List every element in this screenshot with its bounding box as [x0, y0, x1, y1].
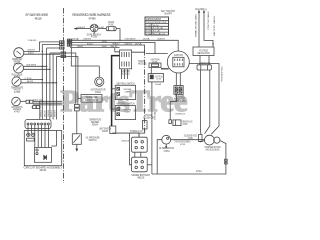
svg-text:GRN: GRN: [48, 109, 50, 117]
ignition connector block: [174, 86, 183, 95]
svg-text:HYDRAULIC LIFT: HYDRAULIC LIFT: [130, 130, 143, 133]
stubs heavy line to relays: [111, 88, 115, 110]
svg-text:B+I+A1+S: B+I+A1+S: [153, 33, 166, 36]
svg-text:10 AMP: 10 AMP: [99, 26, 104, 29]
voltage regulator box: [193, 47, 214, 56]
rotated wire labels: [40, 11, 223, 120]
wire G4 lead C: [33, 104, 62, 106]
svg-text:START: START: [125, 91, 132, 94]
svg-text:SWITCH 48163: SWITCH 48163: [85, 99, 98, 102]
svg-text:16GA: 16GA: [102, 40, 107, 43]
svg-text:2 RUN: 2 RUN: [146, 28, 152, 30]
svg-text:47455: 47455: [14, 76, 21, 79]
wire row y44.5: [42, 44, 60, 46]
battery sense wire A: [198, 10, 200, 47]
accessory plug box: [148, 74, 163, 82]
connector block J1: [25, 120, 51, 129]
temperature gauge G3: [12, 77, 21, 86]
section divider left: [63, 8, 65, 183]
wire stub from divider to ignition: [146, 53, 155, 55]
svg-text:BROWN: BROWN: [27, 81, 33, 83]
svg-text:48165: 48165: [102, 130, 109, 133]
magneto left lead: [157, 140, 162, 174]
svg-text:47490: 47490: [89, 16, 96, 20]
magneto ground stub: [165, 144, 167, 149]
interlock module small box: [110, 126, 116, 134]
ignition switch chart table: [145, 17, 169, 35]
section divider right: [144, 50, 146, 132]
svg-text:POSITIVE BATTERY CABLE: POSITIVE BATTERY CABLE: [220, 66, 223, 81]
svg-text:16GA: 16GA: [153, 111, 156, 120]
wire row y107: [32, 106, 33, 108]
wire row y53: [50, 52, 60, 54]
starter solenoid: [214, 137, 220, 143]
wire G3 upper lead: [21, 79, 42, 81]
svg-text:BLACK: BLACK: [87, 42, 93, 45]
svg-text:48190: 48190: [137, 176, 145, 179]
wire accessory feed: [71, 48, 99, 66]
svg-text:REGULATOR: REGULATOR: [198, 52, 210, 55]
harness bundle vertical 3: [49, 53, 51, 120]
inline connector on temperature wires: [74, 104, 79, 133]
svg-text:START: START: [125, 111, 132, 114]
heavy wire lower run: [113, 133, 139, 137]
wires below regulator: [200, 56, 209, 63]
fuel gauge G2: [14, 63, 24, 73]
wire fuse to heavy run: [131, 129, 145, 133]
svg-text:BLACK 16GA: BLACK 16GA: [33, 99, 43, 102]
engine run module M1: [90, 24, 98, 34]
svg-text:16GA RED: 16GA RED: [27, 49, 35, 52]
svg-text:3 RUN: 3 RUN: [146, 31, 152, 33]
svg-text:MODULE: MODULE: [138, 63, 147, 66]
svg-text:16GA RED: 16GA RED: [77, 26, 85, 29]
svg-text:16GA BLK: 16GA BLK: [121, 139, 129, 142]
svg-text:NEUTRAL SWITCH: NEUTRAL SWITCH: [117, 82, 135, 85]
svg-text:FUSE: FUSE: [109, 24, 114, 27]
circuit board diode symbols top-left: [27, 133, 35, 141]
wire G1 lower lead: [24, 53, 61, 55]
svg-text:16GA RED: 16GA RED: [124, 42, 132, 45]
svg-text:48164: 48164: [92, 123, 99, 126]
harness bundle vertical 5: [55, 57, 57, 120]
wire temperature feed A: [60, 53, 76, 104]
wire block feed left: [130, 133, 132, 165]
svg-text:48121: 48121: [40, 169, 48, 172]
svg-text:16GA ORANGE: 16GA ORANGE: [125, 38, 136, 41]
wire solenoid fuse to starter: [200, 141, 205, 143]
ignition switch SW1: [167, 51, 189, 73]
ammeter gauge G1: [14, 48, 24, 58]
wire row y48: [47, 47, 61, 49]
wire G4 lead B: [33, 102, 62, 104]
harness bundle vertical 6: [39, 101, 41, 119]
svg-text:47290: 47290: [188, 138, 194, 140]
svg-text:17GA RED: 17GA RED: [28, 39, 37, 42]
wire temp box stub: [78, 97, 81, 99]
wire regulator to fuse stubs: [200, 62, 209, 65]
svg-text:SOLENOID: SOLENOID: [143, 116, 154, 119]
svg-text:17GA: 17GA: [196, 170, 202, 173]
wire G2 upper lead: [24, 65, 47, 67]
wire to starter right: [205, 70, 210, 134]
wire M1 right lead: [98, 28, 106, 30]
harness bundle vertical 1: [41, 45, 43, 120]
svg-text:POSITION TERM AT CONN: POSITION TERM AT CONN: [146, 21, 166, 24]
wires J1 pins to circuit board: [28, 125, 48, 131]
junction dot L1 riser: [119, 40, 120, 41]
bus wire L3: [67, 45, 144, 52]
svg-text:47454: 47454: [14, 62, 21, 65]
wires between blocks: [135, 152, 141, 157]
wire temperature feed B: [60, 57, 78, 105]
wire connector to brake plug: [170, 94, 176, 119]
svg-text:SWITCH: SWITCH: [89, 138, 97, 142]
bus start connector pairs: [67, 39, 71, 46]
svg-text:BLACK: BLACK: [28, 52, 34, 55]
wire G4 lead A: [20, 100, 26, 102]
wires switch to connector: [176, 73, 180, 86]
svg-text:BLK: BLK: [111, 46, 119, 48]
wire G3 lower lead: [21, 82, 56, 84]
circuit board inner module box: [35, 148, 52, 163]
brake plug box: [173, 120, 181, 126]
svg-text:16GA: 16GA: [155, 83, 162, 86]
bus wire L4: [70, 47, 120, 49]
oil pressure switch S1: [72, 134, 81, 145]
wire G2 lower lead: [24, 68, 50, 70]
diode D1 inside module: [44, 155, 47, 160]
hour meter gauge G4: [12, 97, 21, 106]
wire to alternator: [98, 66, 100, 77]
heavy ground wire: [112, 56, 120, 126]
module terminals: [36, 149, 38, 155]
circuit board assembly box: [24, 131, 61, 166]
temperature switch box: [81, 95, 102, 103]
svg-text:14GA RED (+): 14GA RED (+): [195, 8, 207, 11]
solenoid inline fuse: [142, 121, 147, 129]
solenoid fuse: [199, 135, 202, 142]
svg-text:LIGHT 47284: LIGHT 47284: [174, 100, 187, 103]
seat switch block B2: [132, 157, 148, 172]
svg-text:47254: 47254: [164, 151, 171, 153]
starter motor: [205, 135, 215, 145]
svg-text:1 OFF: 1 OFF: [146, 25, 152, 27]
two gauge assembly wire: [171, 139, 205, 141]
junction dots left bundle: [39, 51, 57, 108]
wire ignition output right: [189, 64, 219, 135]
svg-text:48118: 48118: [35, 16, 42, 20]
svg-text:B+I+A1+A2: B+I+A1+A2: [153, 27, 164, 30]
inline fuse holder F2: [197, 65, 211, 70]
alternator A1: [95, 77, 104, 86]
svg-text:AND SOLENOID: AND SOLENOID: [206, 148, 220, 151]
wire M1 left lead with arrow: [74, 27, 91, 29]
inline connector pair on G4 leads: [26, 100, 33, 103]
wire F1 to bus riser: [116, 29, 120, 41]
wire K0 to bus L4: [115, 48, 120, 52]
svg-text:47281: 47281: [156, 79, 162, 81]
svg-text:4788: 4788: [180, 144, 186, 146]
svg-text:FUSE: FUSE: [153, 61, 158, 64]
bus wire L2: [67, 42, 168, 53]
circuit board internal traces: [28, 131, 57, 148]
wire to solenoid fuse: [200, 70, 203, 135]
svg-text:16GA BLUE: 16GA BLUE: [175, 113, 185, 116]
svg-text:47287: 47287: [183, 124, 189, 126]
svg-text:47457: 47457: [14, 111, 21, 114]
svg-text:48162: 48162: [95, 91, 102, 94]
neutral relay box K1: [115, 85, 135, 99]
svg-text:47456: 47456: [14, 91, 21, 94]
svg-text:B+M: B+M: [153, 25, 159, 27]
svg-text:GREEN: GREEN: [77, 46, 83, 48]
battery sense wire B: [203, 10, 214, 47]
svg-text:IGNITION SWITCH: IGNITION SWITCH: [146, 18, 161, 21]
svg-text:BATTERY CABLE: BATTERY CABLE: [213, 15, 216, 36]
svg-text:B+L+A1: B+L+A1: [153, 30, 161, 33]
svg-text:FRAME GROUND CABLE: FRAME GROUND CABLE: [194, 13, 197, 37]
engine magneto circle: [162, 135, 171, 144]
wire G1 upper lead: [24, 42, 61, 52]
svg-text:NEUTRAL SWITCH: NEUTRAL SWITCH: [117, 103, 135, 106]
svg-text:16GA: 16GA: [143, 38, 151, 41]
svg-text:LT BLUE: LT BLUE: [25, 78, 32, 80]
harness bundle vertical 2: [46, 48, 48, 120]
wire G4 lead A continued: [33, 100, 62, 102]
svg-text:47266: 47266: [91, 37, 98, 39]
harness bundle vertical 4: [52, 54, 54, 119]
wire plug down to bottom bus: [151, 82, 153, 174]
svg-text:IGNITION: IGNITION: [174, 54, 183, 57]
svg-text:20 AMP FUSE: 20 AMP FUSE: [199, 62, 210, 65]
wire fuse to plug: [150, 68, 152, 74]
connector J1 pins: [27, 123, 49, 125]
svg-text:CHART: CHART: [164, 12, 173, 15]
wire starter to battery cable: [152, 141, 226, 175]
svg-text:16GA RED: 16GA RED: [83, 38, 91, 41]
battery cable inline lugs: [225, 159, 228, 164]
fuse F1: [106, 27, 116, 31]
bus wire L1: [67, 40, 178, 51]
neutral relay box K2: [115, 106, 135, 120]
connector module box K0: [120, 50, 132, 69]
svg-text:MODULE: MODULE: [121, 72, 130, 75]
wire row y56.5: [56, 56, 60, 58]
connector pairs at divider crossing: [60, 41, 66, 58]
svg-text:16GA RED: 16GA RED: [157, 38, 165, 41]
svg-text:16GA GREEN: 16GA GREEN: [26, 64, 36, 67]
svg-text:16GA: 16GA: [135, 42, 143, 45]
inline connector pair row y107: [33, 106, 40, 109]
wires below K0: [122, 69, 128, 79]
svg-text:16GA: 16GA: [72, 38, 80, 41]
ignition fuse assembly: [149, 63, 161, 68]
svg-text:ALTERNATOR: ALTERNATOR: [159, 146, 174, 150]
K0 internal pins: [122, 52, 129, 67]
brake plug inline connector: [169, 120, 172, 124]
svg-text:POSITIVE CABLE: POSITIVE CABLE: [207, 11, 210, 30]
heavy wire fuse to switch: [161, 68, 169, 70]
seat switch block B1: [132, 137, 148, 152]
ground arrow below S1: [75, 144, 78, 151]
wire block B2 to bus: [147, 164, 152, 166]
svg-text:16GA: 16GA: [102, 45, 107, 48]
